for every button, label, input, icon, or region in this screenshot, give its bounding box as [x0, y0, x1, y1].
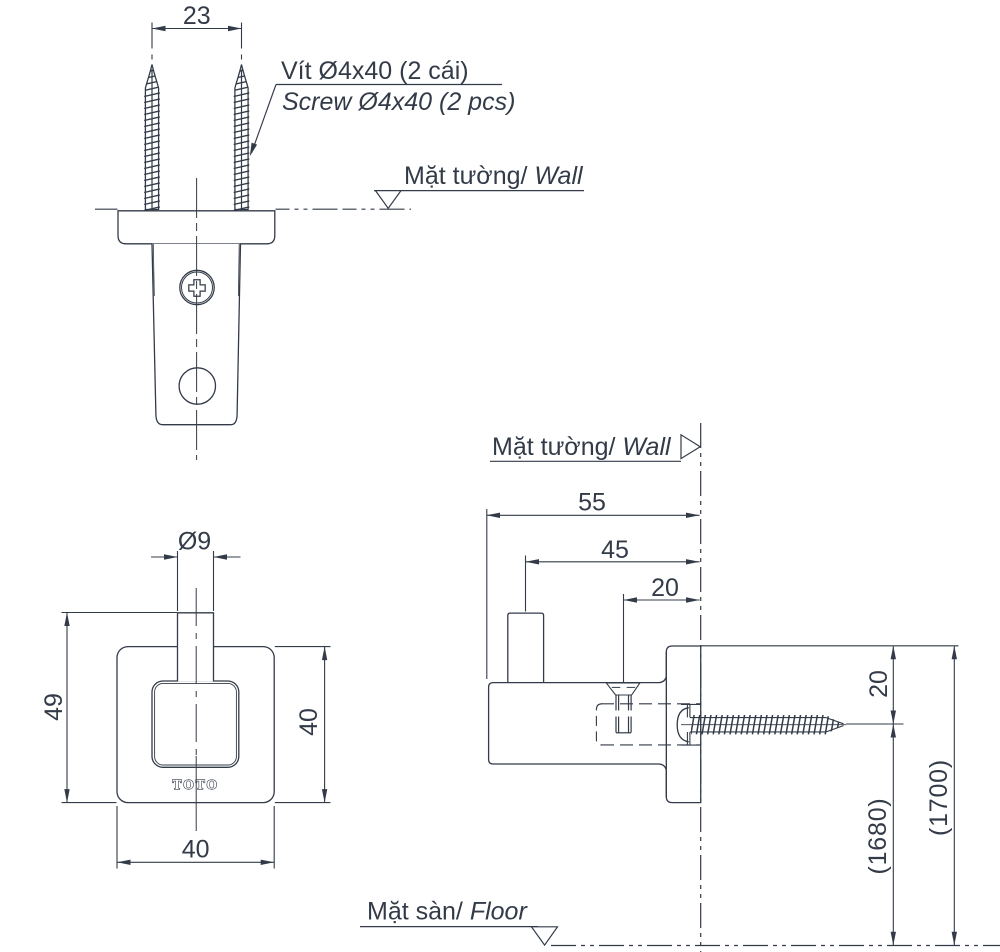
bracket flange (wall plate, top view)	[118, 211, 275, 244]
label Vit O4x40 leader line with arrow	[250, 85, 502, 157]
extension lines for 49	[62, 613, 178, 803]
svg-text:40: 40	[295, 708, 323, 736]
flange left edge (visible through body junction)	[665, 652, 667, 797]
hook outer square plate (front view)	[117, 647, 274, 803]
hook hole circle on bracket	[179, 368, 215, 404]
bracket vertical centerline	[196, 178, 198, 460]
svg-text:Mặt sàn/ Floor: Mặt sàn/ Floor	[367, 898, 528, 926]
label text Vit O4x40 (2 cai)	[281, 57, 469, 85]
svg-text:45: 45	[601, 536, 629, 564]
dimension 20 (set screw to wall)	[624, 574, 700, 603]
countersunk set screw (side view, vertical)	[606, 683, 640, 733]
dimension 55 (pin front to wall)	[487, 489, 700, 519]
inner square boss (double outline)	[152, 681, 239, 767]
bracket stem (top view)	[152, 244, 241, 425]
wall label (side view): Mat tuong / Wall with triangle	[490, 433, 700, 461]
extension line at screw axis level	[846, 723, 904, 725]
screw SA (vertical mounting screw, top view)	[144, 65, 160, 211]
dimension 40 (right, plate height)	[295, 647, 327, 803]
svg-text:20: 20	[865, 670, 893, 698]
extension line for 55	[486, 509, 488, 679]
wall line (side view, vertical dash-dot-dot)	[700, 423, 702, 952]
dimension (1680) screw axis to floor	[864, 724, 896, 945]
svg-text:20: 20	[651, 574, 679, 602]
hidden cavity (dashed) in side view	[596, 704, 700, 745]
extension line over right screw	[241, 23, 243, 64]
dimension 20 (right side, hook top to screw axis)	[865, 646, 896, 724]
floor label: Mat san / Floor with triangle	[360, 898, 558, 946]
extension line over left screw	[151, 23, 153, 64]
hook body (side view)	[489, 676, 667, 769]
TOTO logo	[173, 777, 220, 792]
svg-text:Vít Ø4x40 (2 cái): Vít Ø4x40 (2 cái)	[281, 57, 469, 85]
dimension 49 (left, total height)	[40, 613, 70, 803]
svg-text:49: 49	[40, 693, 68, 721]
svg-text:(1680): (1680)	[864, 797, 892, 874]
hook pin (front view)	[178, 613, 214, 682]
svg-text:(1700): (1700)	[925, 759, 953, 836]
extension lines for bottom 40	[117, 806, 274, 869]
front view vertical centerline	[195, 588, 197, 831]
label text Screw O4x40 (2 pcs) italic	[282, 88, 515, 116]
dimension 45 (pin center to wall)	[526, 536, 700, 565]
svg-text:Mặt tường/ Wall: Mặt tường/ Wall	[492, 433, 672, 461]
svg-text:Screw Ø4x40 (2 pcs): Screw Ø4x40 (2 pcs)	[282, 88, 515, 116]
svg-text:Mặt tường/ Wall: Mặt tường/ Wall	[404, 162, 584, 190]
dimension (1700) hook top to floor	[925, 646, 957, 946]
extension lines for O9	[178, 551, 214, 611]
svg-text:Ø9: Ø9	[178, 528, 211, 556]
dimension 40 (bottom, plate width)	[117, 836, 274, 866]
svg-text:55: 55	[578, 489, 606, 517]
extension line at hook top level	[701, 645, 959, 647]
svg-text:23: 23	[183, 2, 211, 30]
svg-text:40: 40	[182, 836, 210, 864]
screw SB (vertical mounting screw, top view)	[234, 65, 250, 211]
set screw centerline	[623, 692, 625, 739]
extension line for top 20	[623, 594, 625, 692]
wall screw (side view, horizontal)	[677, 704, 846, 745]
extension line for 45	[525, 556, 527, 612]
floor line (dash-dot-dot)	[551, 945, 1000, 947]
wall surface line (top view, dash-dot-dot), left segment	[95, 208, 118, 210]
wall surface line (top view), right segment	[276, 208, 412, 210]
phillips screw head on bracket	[180, 270, 214, 304]
hook pin (side view)	[508, 613, 544, 683]
extension lines for right 40	[275, 647, 331, 803]
dimension 23 (screw spacing)	[152, 2, 242, 31]
dimension O9 (pin diameter)	[151, 528, 241, 560]
hook mounting flange (side view, against wall)	[666, 646, 700, 803]
wall label: Mat tuong / Wall with surface triangle symbol	[374, 162, 584, 208]
